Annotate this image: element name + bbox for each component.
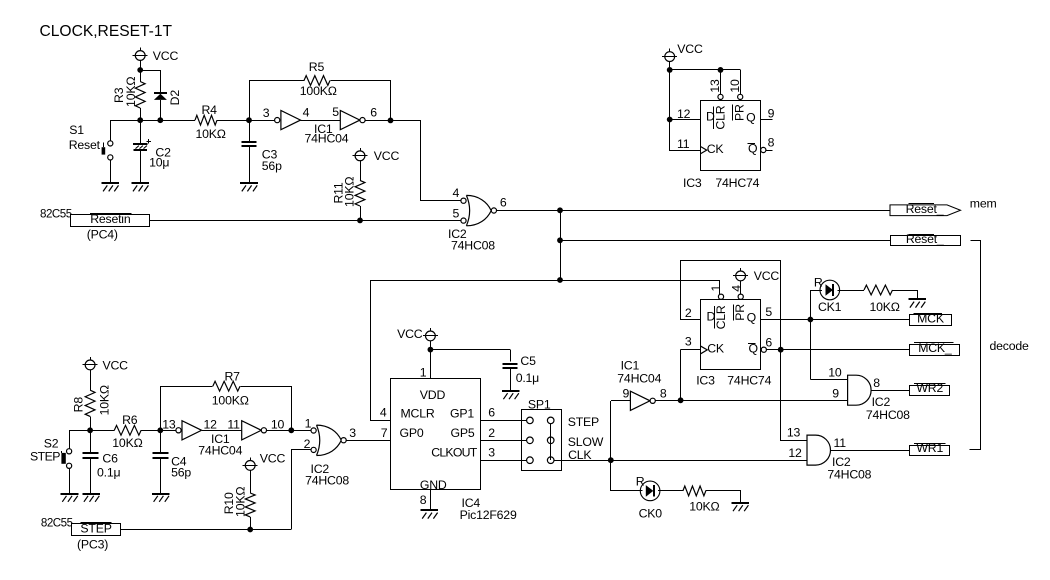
inverter IC1e (pins 9-8) bbox=[617, 359, 667, 411]
svg-text:0.1μ: 0.1μ bbox=[516, 371, 539, 385]
wire bbox=[610, 401, 612, 460]
wire bbox=[810, 320, 812, 380]
wire bbox=[301, 120, 341, 122]
svg-text:(PC4): (PC4) bbox=[87, 228, 118, 242]
pin 8 bubble bbox=[761, 136, 775, 153]
svg-text:mem: mem bbox=[970, 197, 997, 211]
switch S1 bbox=[69, 120, 113, 182]
wire bbox=[292, 450, 311, 530]
svg-text:13: 13 bbox=[708, 79, 722, 93]
svg-text:74HC08: 74HC08 bbox=[866, 408, 910, 422]
capacitor C6 bbox=[83, 430, 121, 493]
wire bbox=[719, 280, 721, 294]
svg-text:4: 4 bbox=[729, 285, 743, 292]
tag Reset_ (mem) bbox=[890, 197, 997, 216]
wire bbox=[830, 450, 909, 452]
svg-text:VCC: VCC bbox=[374, 149, 400, 163]
wire bbox=[365, 120, 390, 122]
tag Reset_ bbox=[891, 232, 961, 246]
wire bbox=[810, 290, 812, 320]
wire bbox=[150, 220, 461, 222]
svg-text:1: 1 bbox=[305, 417, 312, 431]
svg-text:1: 1 bbox=[420, 365, 427, 379]
svg-text:56p: 56p bbox=[262, 159, 282, 173]
svg-text:GP5: GP5 bbox=[451, 426, 475, 440]
svg-text:R4: R4 bbox=[202, 103, 218, 117]
svg-text:74HC04: 74HC04 bbox=[617, 372, 661, 386]
svg-text:Reset: Reset bbox=[69, 138, 101, 152]
svg-text:MCLR: MCLR bbox=[401, 407, 435, 421]
wire pin 3 bbox=[481, 445, 527, 460]
pin 11 label bbox=[677, 137, 690, 151]
pin 2 label bbox=[685, 306, 692, 320]
ground (C2) bbox=[131, 183, 149, 191]
power VCC symbol (IC4) bbox=[397, 327, 438, 341]
node R7 junction bbox=[288, 427, 294, 433]
svg-text:9: 9 bbox=[832, 386, 839, 400]
svg-text:IC1: IC1 bbox=[621, 359, 640, 373]
wire bbox=[680, 319, 701, 321]
wire pin 8 bbox=[420, 490, 431, 510]
svg-text:VDD: VDD bbox=[420, 388, 446, 402]
ground (S2) bbox=[61, 494, 79, 502]
svg-text:10KΩ: 10KΩ bbox=[234, 487, 248, 517]
ground (S1) bbox=[102, 183, 120, 191]
svg-text:Resetin: Resetin bbox=[90, 212, 131, 226]
inverter IC1c (pins 13-12) bbox=[162, 418, 217, 440]
wire bbox=[655, 400, 847, 402]
svg-text:VCC: VCC bbox=[103, 359, 129, 373]
svg-text:6: 6 bbox=[500, 195, 507, 209]
connector SP1 bbox=[522, 398, 562, 471]
node reset net C bbox=[557, 277, 563, 283]
wire bbox=[611, 400, 631, 402]
inverter IC1b (pins 5-6) bbox=[305, 105, 378, 146]
wire bbox=[810, 379, 847, 381]
wire bbox=[560, 240, 890, 242]
svg-text:13: 13 bbox=[787, 426, 801, 440]
svg-text:CK0: CK0 bbox=[639, 506, 663, 520]
node reset net A bbox=[557, 207, 563, 213]
svg-text:74HC08: 74HC08 bbox=[451, 238, 495, 252]
node pin6 junction bbox=[388, 118, 394, 124]
wire bbox=[871, 390, 910, 392]
svg-text:VCC: VCC bbox=[153, 49, 179, 63]
wire bbox=[371, 281, 720, 421]
diode D2 bbox=[154, 70, 182, 120]
svg-text:74HC04: 74HC04 bbox=[198, 444, 242, 458]
wire bbox=[681, 349, 701, 351]
tag MCK bbox=[910, 312, 952, 326]
pin 3 label bbox=[685, 334, 692, 348]
wire pin 6 bbox=[481, 405, 527, 420]
ground (C5) bbox=[502, 391, 520, 399]
svg-text:4: 4 bbox=[303, 106, 310, 120]
node CLK junction bbox=[608, 457, 614, 463]
flip-flop IC3 74HC74 (top) bbox=[700, 94, 760, 170]
svg-text:11: 11 bbox=[834, 436, 847, 450]
svg-text:C5: C5 bbox=[520, 354, 536, 368]
wire pin 5 (Q) bbox=[761, 305, 910, 319]
wire decode bracket bbox=[970, 241, 1030, 450]
node D2 junction bbox=[157, 117, 163, 123]
svg-text:D2: D2 bbox=[168, 90, 182, 106]
wire bbox=[110, 120, 195, 122]
svg-text:74HC74: 74HC74 bbox=[715, 176, 759, 190]
svg-text:VCC: VCC bbox=[397, 327, 423, 341]
capacitor C3 bbox=[241, 120, 282, 182]
node R8 junction bbox=[87, 427, 93, 433]
svg-text:2: 2 bbox=[685, 306, 692, 320]
pin 7 label bbox=[381, 426, 388, 440]
svg-text:IC3: IC3 bbox=[683, 176, 702, 190]
svg-text:decode: decode bbox=[990, 339, 1030, 353]
ground (C6) bbox=[82, 494, 100, 502]
wire D-Qbar loop bbox=[681, 261, 808, 441]
svg-text:VCC: VCC bbox=[260, 452, 286, 466]
pin 6 bubble bbox=[761, 336, 910, 353]
svg-text:S2: S2 bbox=[44, 437, 59, 451]
svg-text:4: 4 bbox=[380, 406, 387, 420]
svg-text:GP0: GP0 bbox=[400, 426, 424, 440]
svg-text:8: 8 bbox=[660, 386, 667, 400]
wire bbox=[69, 430, 114, 432]
svg-text:10KΩ: 10KΩ bbox=[112, 436, 142, 450]
pin 13 label bbox=[708, 79, 722, 93]
svg-text:5: 5 bbox=[453, 207, 460, 221]
svg-text:S1: S1 bbox=[69, 123, 84, 137]
and-gate IC2b (pins 4,5,6) bbox=[448, 186, 507, 252]
wire bbox=[669, 62, 671, 70]
svg-text:13: 13 bbox=[162, 418, 176, 432]
svg-text:CK1: CK1 bbox=[818, 300, 842, 314]
svg-text:0.1μ: 0.1μ bbox=[97, 465, 120, 479]
svg-text:3: 3 bbox=[685, 334, 692, 348]
svg-text:STEP: STEP bbox=[30, 449, 60, 463]
svg-text:5: 5 bbox=[765, 305, 772, 319]
svg-text:56p: 56p bbox=[171, 465, 191, 479]
node Qbar junction bbox=[778, 347, 784, 353]
svg-text:100KΩ: 100KΩ bbox=[300, 84, 337, 98]
svg-text:PR: PR bbox=[732, 104, 746, 121]
switch S2 bbox=[30, 430, 72, 493]
node MCK junction bbox=[808, 317, 814, 323]
svg-text:10KΩ: 10KΩ bbox=[97, 385, 111, 415]
svg-text:Pic12F629: Pic12F629 bbox=[460, 508, 517, 522]
tag MCK_ bbox=[910, 341, 960, 355]
wire bbox=[670, 119, 701, 121]
ground (CK0) bbox=[731, 503, 749, 511]
wire bbox=[217, 120, 275, 122]
power VCC symbol (R3/D2) bbox=[133, 48, 179, 63]
label IC3 74HC74 bbox=[683, 176, 760, 190]
label CLK bbox=[568, 448, 592, 462]
wire CLK net bbox=[554, 460, 807, 462]
node R10 junction bbox=[247, 527, 253, 533]
wire pin 9 bbox=[761, 107, 775, 121]
svg-text:6: 6 bbox=[765, 336, 772, 350]
ground (C3) bbox=[240, 183, 258, 191]
svg-text:9: 9 bbox=[768, 107, 775, 121]
svg-text:MCK_: MCK_ bbox=[918, 341, 952, 355]
node R3/C2 junction bbox=[137, 117, 143, 123]
node inverter out junction bbox=[678, 397, 684, 403]
svg-text:VCC: VCC bbox=[754, 269, 780, 283]
svg-text:74HC74: 74HC74 bbox=[727, 373, 771, 387]
svg-text:4: 4 bbox=[453, 186, 460, 200]
svg-text:10: 10 bbox=[828, 365, 842, 379]
power VCC symbol (R8) bbox=[83, 357, 129, 373]
wire bbox=[346, 440, 390, 442]
node VDD junction bbox=[428, 347, 434, 353]
wire bbox=[740, 70, 742, 94]
LED CK1 bbox=[810, 275, 841, 314]
svg-text:R: R bbox=[814, 275, 823, 289]
svg-text:R5: R5 bbox=[309, 60, 325, 74]
svg-text:10: 10 bbox=[271, 418, 285, 432]
wire bbox=[497, 210, 891, 212]
resistor R5 feedback bbox=[250, 60, 391, 121]
svg-text:VCC: VCC bbox=[677, 42, 703, 56]
svg-text:10KΩ: 10KΩ bbox=[870, 300, 900, 314]
svg-text:74HC04: 74HC04 bbox=[305, 131, 349, 145]
wire bbox=[202, 430, 242, 432]
node R3 top junction bbox=[137, 67, 143, 73]
svg-text:6: 6 bbox=[370, 106, 377, 120]
svg-text:6: 6 bbox=[488, 405, 495, 419]
svg-text:8: 8 bbox=[873, 376, 880, 390]
svg-text:CLR: CLR bbox=[714, 305, 728, 329]
svg-text:3: 3 bbox=[488, 445, 495, 459]
label STEP bbox=[568, 415, 599, 429]
wire bbox=[611, 461, 643, 491]
wire bbox=[267, 430, 311, 432]
svg-text:GP1: GP1 bbox=[450, 407, 474, 421]
node reset net B bbox=[557, 237, 563, 243]
svg-text:10: 10 bbox=[728, 79, 742, 93]
node R6/C4 junction bbox=[157, 427, 163, 433]
wire bbox=[670, 70, 701, 151]
svg-text:Q: Q bbox=[747, 310, 756, 324]
resistor R6 bbox=[112, 413, 142, 450]
svg-text:100KΩ: 100KΩ bbox=[212, 394, 249, 408]
and-gate IC2d (pins 13,12,11) bbox=[787, 426, 872, 482]
pin 1 label bbox=[420, 365, 427, 379]
tag WR1 bbox=[910, 441, 950, 455]
svg-text:10KΩ: 10KΩ bbox=[196, 127, 226, 141]
svg-text:74HC08: 74HC08 bbox=[827, 467, 871, 481]
svg-text:12: 12 bbox=[204, 418, 218, 432]
node C3 junction bbox=[246, 117, 252, 123]
capacitor C2 bbox=[133, 120, 171, 182]
svg-text:8: 8 bbox=[420, 493, 427, 507]
svg-text:7: 7 bbox=[381, 426, 388, 440]
ground (CK1) bbox=[908, 299, 926, 308]
svg-text:3: 3 bbox=[263, 106, 270, 120]
svg-text:12: 12 bbox=[677, 107, 691, 121]
wire bbox=[140, 60, 142, 70]
wire bbox=[430, 341, 432, 379]
svg-text:GND: GND bbox=[420, 478, 447, 492]
resistor R10 bbox=[222, 470, 255, 529]
svg-text:11: 11 bbox=[227, 418, 240, 432]
label IC4 Pic12F629 bbox=[460, 496, 517, 522]
svg-text:10KΩ: 10KΩ bbox=[343, 177, 357, 207]
inverter IC1a (pins 3-4) bbox=[263, 106, 310, 130]
label SLOW bbox=[568, 435, 604, 449]
svg-text:5: 5 bbox=[332, 105, 339, 119]
wire bbox=[720, 70, 722, 94]
ground (IC4) bbox=[421, 510, 439, 519]
power VCC symbol (R10) bbox=[243, 452, 286, 471]
svg-text:R: R bbox=[636, 475, 645, 489]
power VCC symbol (IC3 top) bbox=[662, 42, 703, 62]
svg-text:R6: R6 bbox=[122, 413, 138, 427]
svg-text:CLKOUT: CLKOUT bbox=[431, 446, 478, 460]
svg-text:11: 11 bbox=[677, 137, 690, 151]
LED CK0 bbox=[636, 475, 662, 521]
pin 10 label bbox=[728, 79, 742, 93]
resistor R3 bbox=[112, 70, 145, 120]
tag 82C55 Resetin (PC4) bbox=[40, 208, 150, 242]
svg-text:1: 1 bbox=[709, 285, 723, 292]
resistor R8 bbox=[72, 370, 112, 431]
svg-text:(PC3): (PC3) bbox=[77, 537, 108, 551]
tag 82C55 STEP (PC3) bbox=[41, 516, 121, 551]
title bbox=[40, 23, 173, 40]
svg-text:IC3: IC3 bbox=[696, 373, 715, 387]
resistor R7 feedback bbox=[161, 369, 292, 430]
svg-text:R8: R8 bbox=[72, 397, 86, 413]
capacitor C4 bbox=[152, 430, 191, 493]
wire bbox=[121, 529, 292, 531]
node FF1 vcc junction bbox=[667, 67, 673, 73]
pin 4 label bbox=[729, 285, 743, 292]
resistor R4 bbox=[195, 103, 226, 141]
svg-text:CK: CK bbox=[707, 142, 725, 156]
wire bbox=[560, 210, 562, 280]
pin 4 label bbox=[380, 406, 387, 420]
svg-text:CLR: CLR bbox=[714, 105, 728, 129]
flip-flop IC3 74HC74 (bottom) bbox=[701, 294, 761, 369]
svg-text:PR: PR bbox=[733, 304, 747, 321]
inverter IC1d (pins 11-10) bbox=[198, 418, 284, 458]
tag WR2 bbox=[910, 381, 950, 395]
pin 12 label bbox=[677, 107, 691, 121]
svg-text:SLOW: SLOW bbox=[568, 435, 604, 449]
wire bbox=[141, 430, 176, 432]
svg-text:C6: C6 bbox=[102, 451, 118, 465]
svg-text:IC2: IC2 bbox=[872, 395, 891, 409]
node R11 junction bbox=[357, 218, 363, 224]
svg-text:Q: Q bbox=[746, 111, 755, 125]
and-gate IC2c (pins 10,9,8) bbox=[828, 365, 910, 422]
node pin12 junction bbox=[667, 117, 673, 123]
wire bbox=[740, 281, 742, 294]
power VCC symbol (IC3 bottom) bbox=[733, 268, 779, 283]
IC4 Pic12F629 box bbox=[391, 379, 481, 492]
resistor R11 bbox=[331, 161, 365, 221]
svg-text:10μ: 10μ bbox=[149, 156, 169, 170]
capacitor C5 bbox=[503, 350, 540, 391]
pin 1 label bbox=[709, 285, 723, 292]
wire bbox=[140, 70, 160, 72]
svg-text:12: 12 bbox=[788, 446, 802, 460]
wire pin 2 bbox=[481, 426, 527, 441]
wire bbox=[430, 349, 510, 351]
wire bbox=[391, 121, 461, 201]
resistor 10K (CK0) bbox=[658, 486, 741, 513]
svg-text:8: 8 bbox=[768, 136, 775, 150]
svg-text:82C55: 82C55 bbox=[40, 208, 72, 221]
svg-text:74HC08: 74HC08 bbox=[305, 473, 349, 487]
svg-text:82C55: 82C55 bbox=[41, 516, 73, 529]
and-gate IC2a (pins 1,2,3) bbox=[304, 417, 357, 488]
svg-text:9: 9 bbox=[623, 386, 630, 400]
power VCC symbol (R11) bbox=[353, 148, 400, 163]
svg-text:STEP: STEP bbox=[80, 522, 111, 536]
svg-text:CLOCK,RESET-1T: CLOCK,RESET-1T bbox=[40, 23, 173, 40]
wire bbox=[670, 69, 741, 71]
svg-text:10KΩ: 10KΩ bbox=[689, 499, 719, 513]
resistor 10K (CK1) bbox=[838, 285, 918, 314]
svg-text:2: 2 bbox=[488, 426, 495, 440]
svg-text:3: 3 bbox=[349, 426, 356, 440]
svg-text:R7: R7 bbox=[225, 369, 241, 383]
svg-text:STEP: STEP bbox=[568, 415, 599, 429]
wire bbox=[680, 350, 682, 401]
ground (C4) bbox=[152, 494, 170, 502]
label IC3 74HC74 bbox=[696, 373, 771, 387]
svg-text:10KΩ: 10KΩ bbox=[124, 77, 138, 107]
svg-text:CK: CK bbox=[707, 342, 725, 356]
node pin13 junction bbox=[718, 67, 724, 73]
